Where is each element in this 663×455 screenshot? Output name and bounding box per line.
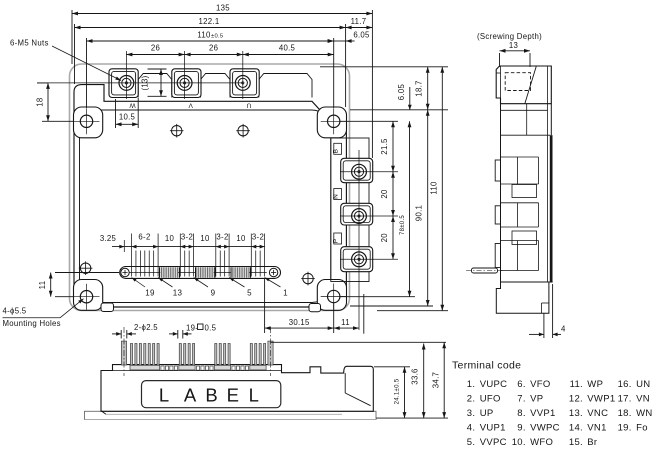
svg-text:12.: 12. (569, 394, 583, 405)
svg-text:110: 110 (429, 181, 438, 195)
svg-text:78±0.5: 78±0.5 (400, 215, 406, 235)
svg-text:Fo: Fo (636, 423, 648, 434)
svg-text:VUPC: VUPC (480, 379, 508, 390)
svg-text:3-2: 3-2 (216, 232, 228, 241)
svg-text:19.: 19. (618, 423, 632, 434)
svg-text:VWPC: VWPC (530, 423, 560, 434)
svg-text:13.: 13. (569, 408, 583, 419)
svg-text:11.7: 11.7 (351, 17, 367, 26)
svg-text:135: 135 (216, 4, 230, 13)
svg-text:2-ϕ2.5: 2-ϕ2.5 (134, 323, 158, 332)
svg-text:18: 18 (36, 97, 45, 106)
svg-text:122.1: 122.1 (198, 17, 219, 26)
svg-text:11.: 11. (570, 379, 583, 390)
svg-text:Terminal code: Terminal code (452, 360, 521, 372)
svg-text:3.: 3. (467, 408, 476, 419)
svg-text:10.: 10. (512, 437, 526, 448)
svg-text:10: 10 (236, 234, 246, 243)
svg-text:UFO: UFO (480, 394, 501, 405)
svg-text:3-2: 3-2 (252, 232, 264, 241)
svg-text:33.6: 33.6 (411, 368, 420, 384)
svg-text:VVP1: VVP1 (530, 408, 556, 419)
svg-text:9.: 9. (517, 423, 526, 434)
svg-text:VFO: VFO (530, 379, 550, 390)
svg-text:WFO: WFO (530, 437, 553, 448)
svg-text:U: U (246, 102, 251, 109)
svg-text:VN1: VN1 (587, 423, 606, 434)
svg-text:90.1: 90.1 (414, 205, 423, 221)
svg-text:20: 20 (380, 233, 389, 243)
svg-text:6.: 6. (517, 379, 526, 390)
svg-text:1: 1 (283, 289, 288, 298)
svg-text:10: 10 (200, 234, 210, 243)
svg-text:6-2: 6-2 (138, 232, 150, 241)
svg-text:19-: 19- (186, 324, 198, 333)
svg-text:34.7: 34.7 (432, 372, 441, 388)
svg-text:11: 11 (38, 281, 47, 290)
svg-text:L: L (249, 384, 259, 405)
svg-text:20: 20 (380, 189, 389, 199)
svg-text:26: 26 (151, 44, 160, 53)
svg-text:16.: 16. (618, 379, 632, 390)
svg-text:8.: 8. (517, 408, 526, 419)
svg-text:VVPC: VVPC (480, 437, 507, 448)
svg-text:40.5: 40.5 (279, 44, 296, 53)
svg-text:UP: UP (480, 408, 494, 419)
svg-text:11: 11 (341, 318, 350, 327)
svg-text:6-M5 Nuts: 6-M5 Nuts (10, 39, 49, 48)
svg-text:110: 110 (197, 31, 211, 40)
svg-text:A: A (184, 384, 197, 405)
svg-text:4-ϕ5.5: 4-ϕ5.5 (3, 307, 27, 316)
svg-text:6.05: 6.05 (397, 83, 406, 100)
svg-text:UN: UN (636, 379, 650, 390)
svg-text:VP: VP (530, 394, 543, 405)
svg-text:7.: 7. (517, 394, 526, 405)
svg-text:10.5: 10.5 (119, 113, 136, 122)
svg-text:E: E (227, 384, 239, 405)
svg-text:2.: 2. (467, 394, 476, 405)
svg-text:19: 19 (145, 289, 155, 298)
svg-text:13: 13 (173, 289, 183, 298)
svg-text:3.25: 3.25 (100, 234, 117, 243)
svg-text:WP: WP (587, 379, 603, 390)
svg-text:26: 26 (209, 44, 218, 53)
svg-text:18.7: 18.7 (414, 80, 423, 96)
svg-text:P: P (333, 238, 340, 243)
svg-text:VN: VN (636, 394, 650, 405)
svg-text:VWP1: VWP1 (587, 394, 615, 405)
svg-text:5.: 5. (467, 437, 476, 448)
svg-text:(Screwing Depth): (Screwing Depth) (477, 32, 542, 41)
svg-text:Mounting Holes: Mounting Holes (3, 319, 61, 328)
svg-text:13: 13 (509, 41, 518, 50)
svg-text:B: B (205, 384, 217, 405)
svg-text:N: N (333, 194, 340, 199)
svg-text:VUP1: VUP1 (480, 423, 506, 434)
svg-text:17.: 17. (618, 394, 632, 405)
svg-text:V: V (188, 102, 193, 109)
svg-text:4.: 4. (467, 423, 476, 434)
svg-text:B: B (333, 149, 340, 154)
svg-text:6.05: 6.05 (353, 31, 370, 40)
svg-text:1.: 1. (467, 379, 476, 390)
svg-text:10: 10 (165, 234, 175, 243)
svg-text:5: 5 (247, 289, 252, 298)
svg-text:L: L (159, 384, 169, 405)
svg-text:(13): (13) (140, 75, 149, 90)
svg-text:30.15: 30.15 (289, 318, 310, 327)
svg-text:±0.5: ±0.5 (211, 34, 223, 40)
svg-text:W: W (129, 102, 136, 109)
svg-text:18.: 18. (618, 408, 632, 419)
svg-text:14.: 14. (569, 423, 583, 434)
svg-text:3-2: 3-2 (181, 232, 193, 241)
svg-text:WN: WN (636, 408, 652, 419)
svg-text:15.: 15. (569, 437, 583, 448)
svg-text:4: 4 (561, 325, 566, 334)
svg-text:9: 9 (211, 289, 216, 298)
svg-text:Br: Br (587, 437, 597, 448)
svg-text:24.1±0.5: 24.1±0.5 (395, 378, 401, 404)
svg-text:21.5: 21.5 (380, 138, 389, 155)
svg-text:VNC: VNC (587, 408, 608, 419)
svg-text:0.5: 0.5 (205, 324, 217, 333)
